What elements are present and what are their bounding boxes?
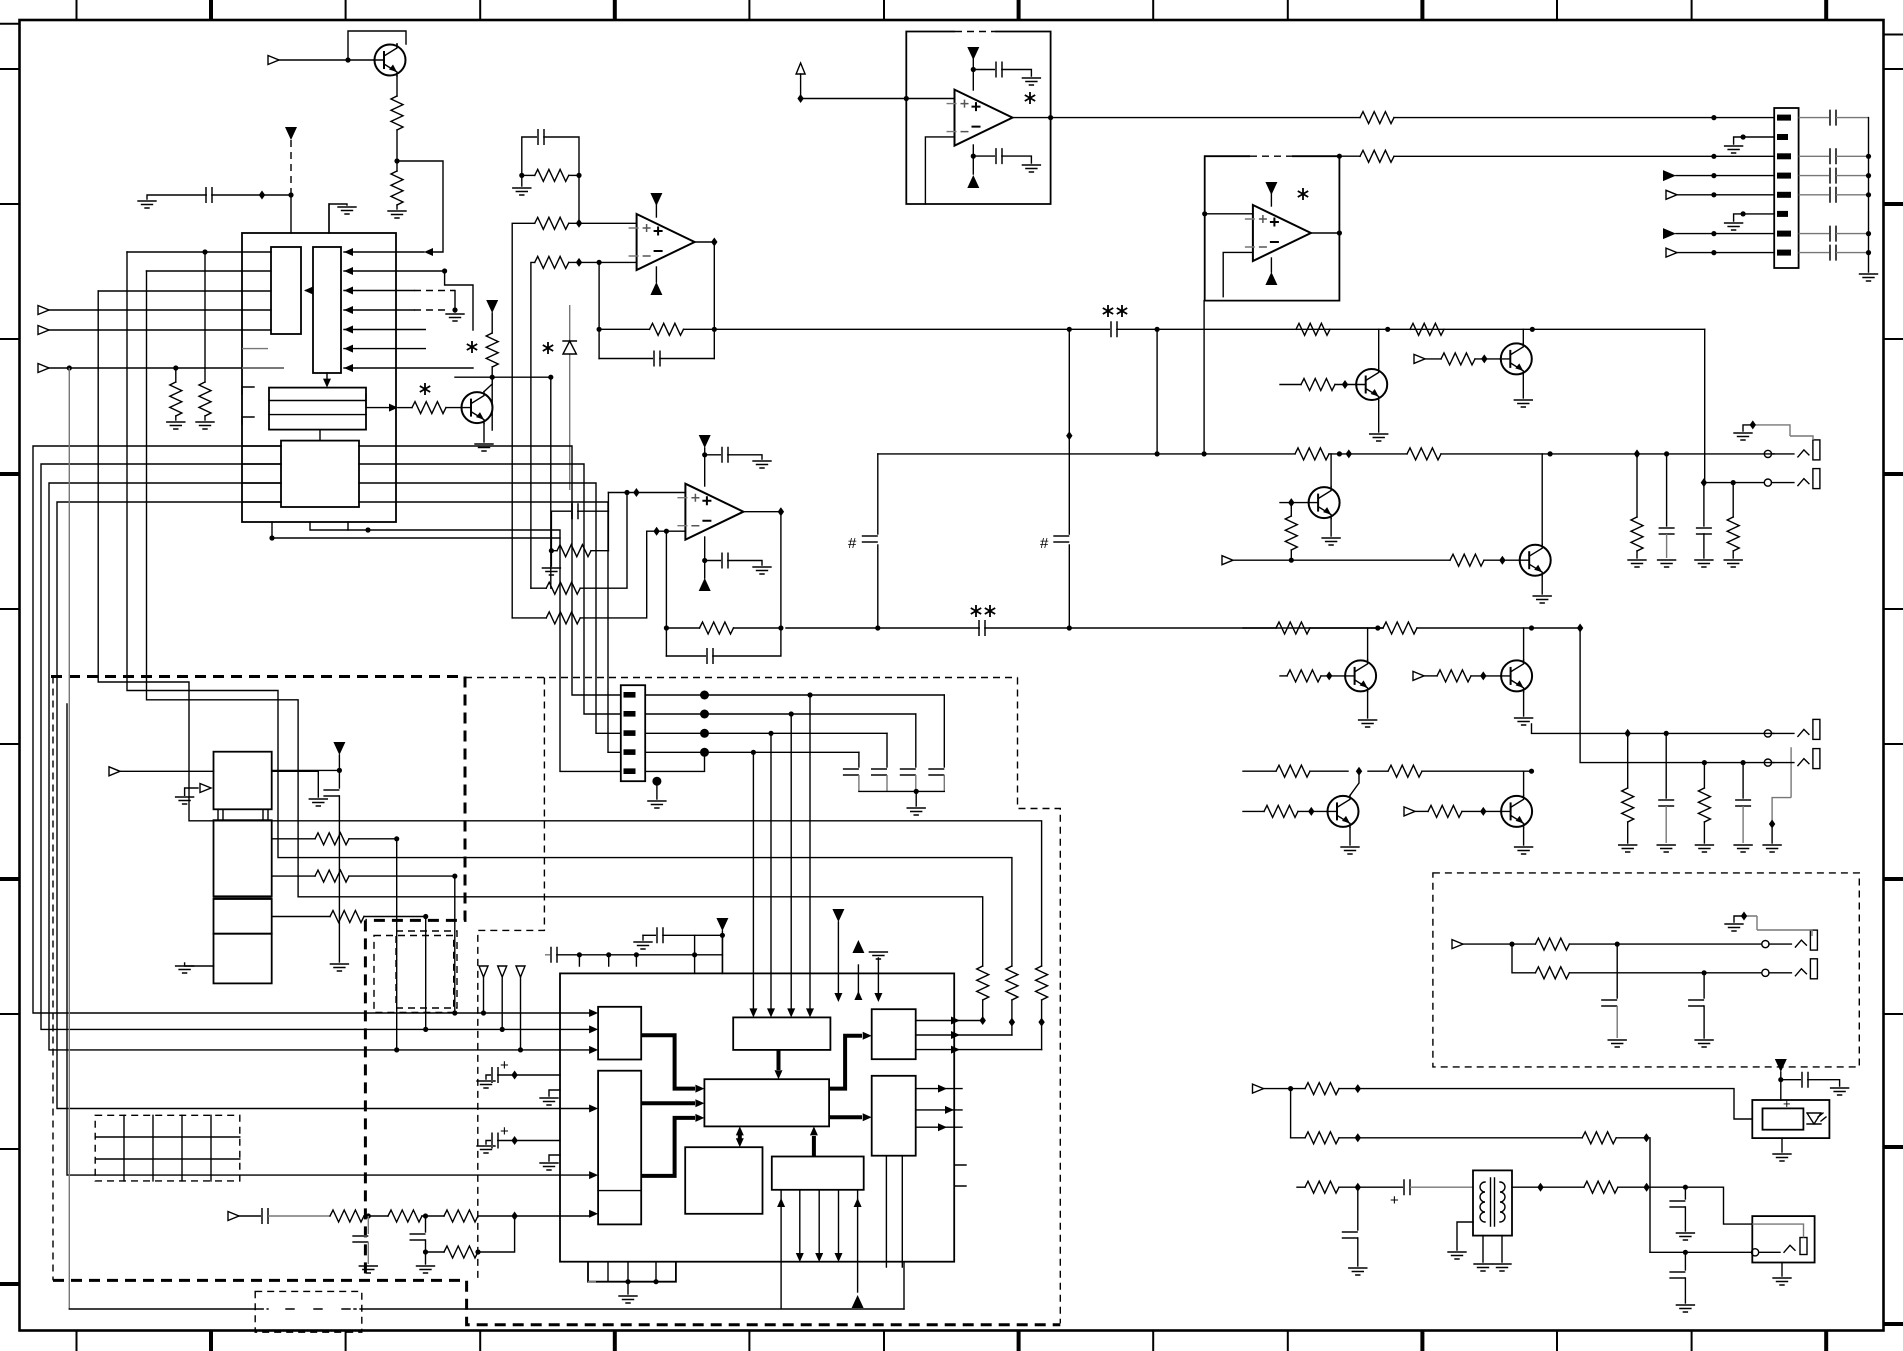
vertical A with cap C9 bbox=[877, 454, 879, 534]
Q8 bbox=[1501, 660, 1533, 692]
supply arrows bbox=[655, 205, 657, 217]
row into B lower bbox=[67, 704, 589, 1175]
clock markers bbox=[479, 966, 488, 977]
aux mute line bbox=[68, 368, 70, 1309]
resistor R17 bbox=[1410, 323, 1444, 335]
Q7 bbox=[1345, 660, 1377, 692]
pin arrows into block B bbox=[344, 252, 473, 368]
cap C16 bbox=[1799, 175, 1830, 177]
Q6 bbox=[1519, 544, 1551, 576]
row3 resistor R15 bbox=[1360, 150, 1774, 162]
R37 bbox=[1535, 938, 1569, 950]
arrow into block A bbox=[306, 290, 313, 292]
feedback loop bbox=[1223, 252, 1253, 296]
arrow out of block C bbox=[366, 394, 389, 408]
resistor R10 bbox=[551, 550, 557, 552]
bundle wire 2 bbox=[396, 464, 621, 714]
row A y=329 to right bbox=[714, 328, 1111, 330]
thin left edge bbox=[52, 677, 54, 1281]
decoupling row2 bbox=[545, 954, 551, 956]
pin8 wire bbox=[1677, 252, 1774, 254]
transistor Q2 bbox=[461, 392, 493, 424]
ground below bbox=[1781, 1138, 1783, 1152]
analog box heavy top bbox=[51, 675, 465, 678]
C23 bbox=[1742, 763, 1744, 798]
collector wire bbox=[484, 377, 492, 391]
dashed box around clock markers bbox=[478, 678, 545, 1281]
pin4 row bbox=[645, 751, 859, 753]
row C y=630 with cap C11 ** bbox=[979, 620, 985, 636]
polarized cap C25 bbox=[486, 1141, 492, 1145]
Q3 bbox=[1356, 369, 1388, 401]
resistor Rb bbox=[272, 875, 315, 877]
pin1 row bbox=[645, 694, 944, 696]
row1 resistor R14 bbox=[1360, 112, 1774, 124]
cap C33 bbox=[1683, 1185, 1688, 1190]
input wire bbox=[801, 98, 955, 100]
bundle wire 5 bbox=[368, 530, 621, 771]
node bbox=[288, 192, 293, 197]
row1 y=1088.6 bbox=[1253, 1084, 1264, 1093]
pins bbox=[1777, 115, 1791, 121]
bundle wire 3 bbox=[396, 483, 621, 733]
collector bbox=[1522, 329, 1524, 343]
right edge stubs bbox=[954, 1165, 966, 1186]
C29 to ground bbox=[425, 1216, 427, 1232]
feedback resistor R9 bbox=[599, 262, 649, 358]
shield bus bbox=[1868, 118, 1870, 272]
jack J5 bbox=[1762, 930, 1818, 950]
C30 to ground bbox=[1616, 944, 1618, 998]
emitter ground bbox=[1523, 692, 1525, 716]
jack J3 bbox=[1764, 719, 1820, 739]
DAC dashed box 2 bbox=[396, 931, 457, 1008]
output bbox=[1013, 117, 1361, 119]
pullup resistors R29 R30 R31 bbox=[977, 966, 989, 1000]
collector bbox=[1350, 771, 1359, 795]
R26 bbox=[1732, 483, 1734, 517]
polarized cap C24 bbox=[486, 1075, 492, 1079]
svg-text:+: + bbox=[500, 1123, 509, 1140]
R28 bbox=[1703, 763, 1705, 788]
+ input bbox=[1205, 213, 1253, 215]
svg-text:#: # bbox=[1040, 535, 1049, 552]
supply rails to pull-up resistors bbox=[98, 291, 1041, 966]
cap to ground on row2 tap bbox=[1357, 1187, 1359, 1230]
supply arrow bbox=[333, 742, 345, 755]
wire base bbox=[279, 59, 374, 61]
vertical B with cap C10 bbox=[1068, 329, 1070, 534]
- input wire bbox=[647, 530, 686, 532]
IC1 sub-block A bbox=[271, 247, 301, 334]
collector bbox=[1541, 454, 1543, 544]
emitter ground bbox=[1541, 576, 1543, 594]
resistor R16 bbox=[1296, 323, 1330, 335]
digital box right edge bbox=[1018, 678, 1061, 1324]
jack J2 bbox=[1764, 469, 1820, 489]
wire bbox=[396, 130, 398, 171]
arrow B to C bbox=[326, 373, 328, 380]
pins bbox=[624, 692, 636, 698]
supply pins arrows into C bbox=[752, 752, 754, 1008]
node bbox=[202, 249, 207, 254]
wire cap left + ground bbox=[147, 195, 206, 199]
supply cap C4 bbox=[705, 454, 722, 456]
xtal connector mark bbox=[185, 788, 198, 795]
shield ground bbox=[652, 777, 661, 786]
pin2 ground bbox=[1734, 137, 1775, 144]
base resistor R19 bbox=[1441, 353, 1475, 365]
C21 bbox=[1703, 483, 1705, 526]
thick bus B2 to D bbox=[641, 1118, 695, 1176]
bottom sub block bbox=[588, 1262, 676, 1282]
jack2 feed row bbox=[1704, 482, 1764, 484]
block F bbox=[872, 1076, 916, 1156]
C32 polarized bbox=[1404, 1179, 1410, 1195]
coupling cap C8 ** bbox=[1111, 321, 1117, 337]
feedback resistor R13 bbox=[666, 531, 699, 656]
resistor R11 into + bbox=[531, 587, 546, 589]
feet bbox=[218, 809, 268, 820]
pin3 row bbox=[645, 732, 887, 734]
LED box bbox=[1752, 1100, 1829, 1138]
R25 bbox=[1636, 454, 1638, 517]
Q9 bbox=[1327, 795, 1359, 827]
row y=560 bbox=[1222, 556, 1233, 565]
diode D1 bbox=[550, 377, 552, 588]
emitter to ground bbox=[1378, 401, 1380, 433]
node marker bbox=[796, 63, 805, 74]
heavy right edge w/ jog bbox=[365, 677, 465, 1281]
input connector J-A bbox=[268, 56, 279, 65]
F outputs bbox=[916, 1089, 962, 1128]
wire collector loop bbox=[348, 31, 406, 60]
bottom return wire bbox=[903, 1262, 905, 1309]
emitter ground bbox=[1367, 692, 1369, 718]
cap C26 bbox=[323, 790, 339, 796]
resistor R23 bbox=[1450, 554, 1484, 566]
ground bbox=[521, 175, 523, 186]
cap C13 bbox=[973, 155, 996, 157]
svg-text:#: # bbox=[848, 535, 857, 552]
output bbox=[1311, 232, 1340, 234]
heavy bottom bbox=[53, 1280, 1060, 1324]
resistor R2 bbox=[391, 171, 403, 205]
wire bbox=[396, 205, 398, 209]
output wire to resistor row bbox=[1339, 155, 1360, 157]
wire row2 riser bbox=[445, 271, 473, 330]
+ input wire bbox=[608, 492, 685, 494]
block A bbox=[598, 1007, 641, 1060]
emitter ground bbox=[1523, 827, 1525, 845]
input resistor R8 bbox=[531, 262, 535, 588]
pin2 row bbox=[645, 713, 916, 715]
pulldown R3 bbox=[175, 368, 177, 382]
verticals + ground bbox=[551, 493, 608, 567]
collector row bbox=[1243, 770, 1276, 772]
misc top pins bbox=[837, 922, 839, 993]
base bias resistor R22 bbox=[1290, 503, 1292, 516]
bottom small dashed box bbox=[255, 1291, 362, 1332]
E outputs bbox=[916, 1021, 1042, 1050]
IC1 sub-block D bbox=[281, 441, 359, 507]
output bbox=[743, 512, 781, 628]
supply diode chain left bbox=[486, 300, 498, 313]
supply top bbox=[972, 59, 974, 90]
R36 parallel bbox=[423, 1249, 428, 1254]
supply pins at IC1 top bbox=[328, 204, 330, 233]
cap C15 bbox=[1799, 155, 1830, 157]
input connector bbox=[109, 767, 120, 776]
Q4 bbox=[1500, 343, 1532, 375]
cap C12 bbox=[973, 69, 996, 71]
emitter ground bbox=[1349, 827, 1351, 845]
cap C27 bbox=[262, 1208, 268, 1224]
block B bbox=[598, 1071, 641, 1225]
R27 bbox=[1627, 733, 1629, 788]
R39 bbox=[1584, 1181, 1618, 1193]
thick D to E bbox=[829, 1036, 862, 1089]
op-amp U4 bbox=[947, 90, 1013, 146]
dashed stubs + ground bbox=[414, 291, 455, 311]
power arrow VD1 bbox=[285, 127, 297, 140]
pulldown R4 bbox=[204, 252, 206, 382]
row2 tap bbox=[1512, 944, 1535, 973]
reg box mid bbox=[214, 820, 272, 896]
thick D to F bbox=[829, 1115, 862, 1119]
vertical C bbox=[1156, 329, 1158, 454]
feedback cap C3 bbox=[599, 358, 654, 360]
reg box 4 bbox=[214, 934, 272, 984]
op-amp U3 bbox=[677, 484, 743, 540]
op-amp U5 bbox=[1245, 205, 1311, 261]
heavy divider bbox=[214, 897, 272, 899]
R38 bbox=[1535, 967, 1569, 979]
bundle wire 4 bbox=[396, 502, 621, 752]
block C bbox=[733, 1017, 830, 1050]
ground bbox=[388, 211, 406, 218]
bottom ground bbox=[185, 963, 214, 966]
Q5 bbox=[1308, 487, 1340, 519]
feed wires to jacks bbox=[1532, 724, 1774, 733]
cap C17 bbox=[1799, 194, 1830, 196]
collector bbox=[1367, 628, 1369, 660]
verticals through DAC box bbox=[397, 839, 455, 1050]
C20 bbox=[1666, 454, 1668, 526]
decoupling row1 bbox=[642, 935, 644, 940]
svg-text:+: + bbox=[500, 1057, 509, 1074]
resistor R21 bbox=[1407, 448, 1441, 460]
resistor R20 bbox=[1295, 448, 1329, 460]
jack J1 bbox=[1734, 420, 1820, 460]
input connector J-B bbox=[38, 306, 49, 315]
pin6 ground bbox=[1734, 214, 1775, 221]
Q10 bbox=[1501, 795, 1533, 827]
IC1 sub-block B bbox=[313, 247, 341, 373]
F bottom wires bbox=[886, 1156, 902, 1267]
dashed supply wire bbox=[290, 140, 292, 195]
capacitor C1 bbox=[206, 187, 212, 203]
to jack7 bbox=[1685, 1187, 1752, 1224]
long wrap wires rows into DSP block A bbox=[33, 446, 589, 1013]
LED symbol bbox=[1807, 1113, 1821, 1124]
block H bbox=[772, 1157, 864, 1190]
wire to arrow bbox=[397, 161, 443, 252]
block E bbox=[872, 1009, 916, 1059]
DSP outline bbox=[560, 973, 954, 1261]
C28 to ground bbox=[367, 1216, 369, 1234]
svg-text:+: + bbox=[1783, 1096, 1791, 1111]
thick D-G double arrow bbox=[738, 1133, 742, 1140]
IC1 bottom pins bbox=[272, 522, 560, 538]
supply top bbox=[704, 448, 706, 486]
signal arrow into IC1 bbox=[424, 248, 433, 256]
node bbox=[67, 365, 72, 370]
emitter bbox=[1522, 375, 1524, 398]
bus rows into block A bbox=[49, 252, 283, 368]
wire C to D bbox=[319, 430, 321, 441]
emitter wire + ground bbox=[483, 424, 485, 442]
DAC dashed box 1 bbox=[374, 936, 454, 1013]
C22 bbox=[1665, 733, 1667, 798]
feedback loop bbox=[925, 137, 954, 204]
reg box 3 bbox=[214, 899, 272, 934]
U5 box bbox=[1205, 156, 1340, 300]
bottom right dashed box bbox=[1433, 873, 1859, 1067]
input resistor R7 bbox=[512, 223, 535, 618]
input connector J-C bbox=[38, 326, 49, 335]
top pins entering DSP bbox=[695, 935, 723, 973]
base resistor R18 bbox=[1280, 384, 1301, 386]
row2 y=1137.8 bbox=[1291, 1137, 1305, 1139]
input marker bbox=[1452, 940, 1463, 949]
block D bbox=[704, 1079, 829, 1126]
wire to IC1 bbox=[290, 195, 292, 233]
resistor R12 into - bbox=[512, 617, 546, 619]
sleeve return bbox=[1772, 747, 1791, 822]
cap C34 bbox=[1684, 1252, 1686, 1270]
left edge grounds bbox=[549, 1090, 560, 1096]
thick C to D arrow bbox=[777, 1050, 781, 1070]
output node bbox=[695, 242, 715, 359]
U4 box bbox=[906, 32, 1050, 205]
output caps row1 C14 bbox=[1799, 117, 1830, 119]
jack J6 bbox=[1762, 959, 1818, 979]
R33 bbox=[330, 1210, 364, 1222]
resistor R1 bbox=[391, 96, 403, 130]
node diamond bbox=[259, 191, 265, 200]
bracket pins bbox=[242, 387, 254, 424]
pin7 wire bbox=[1676, 233, 1774, 235]
node base junction bbox=[345, 57, 350, 62]
collector bbox=[1378, 329, 1380, 368]
junction on row2 bbox=[442, 268, 447, 273]
IC1 outline bbox=[242, 233, 396, 522]
secondary out bbox=[1512, 1186, 1584, 1188]
IC1 sub-block C bbox=[269, 388, 366, 430]
R34 bbox=[388, 1210, 422, 1222]
long bottom wire bbox=[69, 1308, 904, 1310]
asterisk marks bbox=[420, 383, 430, 395]
pin5 wire bbox=[1677, 194, 1774, 196]
feedback cap C7 bbox=[666, 655, 707, 657]
resistor Ra bbox=[272, 838, 315, 840]
cap C35 bbox=[1781, 1079, 1802, 1081]
node E1 bbox=[394, 158, 399, 163]
collector bbox=[1330, 454, 1332, 487]
supply bottom bbox=[704, 537, 706, 578]
transformer grounds bbox=[1457, 1222, 1473, 1250]
row B y=453.9 bbox=[878, 453, 1295, 455]
bundle wire 1 bbox=[396, 446, 621, 695]
pin4 wire bbox=[1676, 175, 1774, 177]
right ground stub bbox=[272, 771, 319, 797]
row3 y=1187.2 transformer bbox=[1297, 1186, 1305, 1188]
resistor R5 bbox=[398, 407, 412, 409]
transistor Q1 bbox=[374, 44, 406, 76]
block G bbox=[685, 1147, 762, 1214]
stub marks inside IC1 bbox=[242, 349, 283, 368]
pin5 jog bbox=[645, 752, 704, 771]
C31 to ground bbox=[1703, 973, 1705, 998]
R35 bbox=[444, 1210, 478, 1222]
collector bbox=[1523, 628, 1525, 660]
supply bottom bbox=[972, 145, 974, 174]
drop to jack2 row bbox=[1704, 329, 1706, 482]
reg box top bbox=[214, 752, 272, 810]
rows through block D bbox=[242, 446, 281, 502]
emitter ground bbox=[1330, 519, 1332, 536]
RC to ground: cap C6 bbox=[551, 510, 572, 512]
input connector J-D bbox=[38, 364, 49, 373]
ground bbox=[1860, 274, 1878, 281]
vertical D from U5 bbox=[1203, 301, 1205, 454]
op-amp U2 bbox=[629, 214, 695, 270]
supply arrows bbox=[1270, 194, 1272, 206]
ground stub GS1 bbox=[329, 204, 347, 233]
cap C18 bbox=[1799, 233, 1830, 235]
supply cap C5 bbox=[705, 560, 722, 562]
row y=1252 to jack7 tip bbox=[1650, 1251, 1752, 1253]
thick bus B to D bbox=[641, 1101, 695, 1105]
feedback resistor R6 bbox=[522, 174, 535, 176]
resistor R24 bbox=[1276, 622, 1310, 634]
cap C19 bbox=[1799, 252, 1830, 254]
thick bus A to D bbox=[641, 1035, 695, 1088]
wire cap right bbox=[212, 194, 291, 196]
svg-text:+: + bbox=[1390, 1192, 1399, 1209]
collector bbox=[1523, 771, 1525, 795]
bus caps C36-C39 bbox=[858, 752, 860, 767]
input marker bbox=[1414, 354, 1425, 363]
thick H to D arrow bbox=[812, 1136, 816, 1157]
sleeve ground bbox=[1744, 916, 1757, 930]
jack J4 bbox=[1764, 749, 1820, 769]
feedback cap C2 loop bbox=[522, 137, 538, 175]
H bottom wires bbox=[780, 1190, 782, 1308]
transformer T1 bbox=[1473, 1170, 1512, 1235]
thin top continuation bbox=[465, 677, 1018, 679]
resistor Rc bbox=[272, 916, 330, 918]
